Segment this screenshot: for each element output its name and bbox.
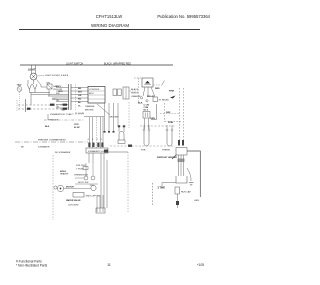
labels under heaters xyxy=(141,150,170,152)
label red xyxy=(155,88,160,90)
compressor bottom lead xyxy=(176,194,179,208)
center drop wires xyxy=(104,103,119,133)
svg-text:CFHT1513LW: CFHT1513LW xyxy=(96,14,122,19)
compressor overload bracket xyxy=(176,176,187,183)
footer doc code xyxy=(197,263,204,267)
dashed bus lower xyxy=(18,108,68,110)
svg-text:FREEZER COMPARTMENT: FREEZER COMPARTMENT xyxy=(38,139,66,142)
label start relay xyxy=(159,99,170,102)
svg-text:HOLD. SW: HOLD. SW xyxy=(78,182,88,184)
icemaker top cluster text xyxy=(76,165,86,171)
evap fan motor component xyxy=(118,125,125,143)
enclosure dash timer left xyxy=(134,78,142,102)
wire color list xyxy=(131,88,141,98)
text under control box xyxy=(61,105,95,115)
svg-text:LIGHT SOCKET & BULB: LIGHT SOCKET & BULB xyxy=(45,75,69,77)
cold control body xyxy=(143,112,150,130)
svg-text:60 HZ: 60 HZ xyxy=(74,127,80,129)
icemaker motor M1 xyxy=(57,185,63,191)
wire tick right of timer xyxy=(154,81,165,86)
start device label xyxy=(158,187,165,190)
icemaker wire row xyxy=(75,183,98,185)
dash line through heaters xyxy=(110,145,175,147)
compartment label xyxy=(49,120,59,122)
icemaker leads below xyxy=(89,153,107,208)
freezer lamp symbol xyxy=(17,87,22,92)
label defrost heater bottom xyxy=(157,156,177,159)
svg-text:ICEMAKER PLUG: ICEMAKER PLUG xyxy=(88,150,105,153)
wire bus lower xyxy=(48,95,69,97)
ground symbol xyxy=(189,183,194,186)
svg-text:ORANGE: ORANGE xyxy=(85,105,95,108)
junction blob on dash line xyxy=(128,145,132,147)
svg-text:WH: WH xyxy=(78,92,82,94)
svg-text:* Non-Illustrated Parts: * Non-Illustrated Parts xyxy=(16,264,48,268)
svg-text:NO ICEMAKER: NO ICEMAKER xyxy=(55,151,71,154)
svg-text:BLK: BLK xyxy=(45,126,50,128)
motor to switch wire xyxy=(64,187,91,189)
enclosure dash at connector xyxy=(75,84,77,110)
icemaker aux circle xyxy=(54,186,57,189)
sensing tube wire xyxy=(150,104,157,120)
harness dash upper xyxy=(72,113,84,115)
control box xyxy=(88,87,105,104)
icemaker harness verticals xyxy=(90,117,104,148)
svg-text:RD: RD xyxy=(78,99,82,101)
fan leader diagonal xyxy=(172,155,177,160)
label green bottom right xyxy=(194,200,199,202)
label pink lower xyxy=(168,122,174,124)
thermostat block xyxy=(123,87,129,99)
svg-text:BOX: BOX xyxy=(89,93,94,95)
wire switches to bus xyxy=(30,90,51,93)
svg-text:HEATER: HEATER xyxy=(60,173,69,176)
icemaker text rows xyxy=(74,174,95,188)
plug connector P1 xyxy=(46,83,52,90)
svg-text:BLACK, WRAPPED RED: BLACK, WRAPPED RED xyxy=(104,62,131,65)
ground wire diagonal xyxy=(187,168,191,181)
harness bracket xyxy=(47,114,49,120)
drop dash center xyxy=(127,152,129,212)
svg-text:3 TMR: 3 TMR xyxy=(158,187,165,190)
svg-text:RELAY: RELAY xyxy=(147,95,155,98)
voltage label block xyxy=(74,124,80,129)
icemaker switch circle xyxy=(91,185,96,190)
icemaker bottom text xyxy=(66,199,81,202)
lamp feed wire xyxy=(37,80,47,88)
publication number xyxy=(157,14,210,19)
condenser fan return wire xyxy=(187,151,200,197)
label pink right xyxy=(169,91,175,93)
svg-text:LIGHT SWITCH: LIGHT SWITCH xyxy=(66,62,83,65)
wiring diagram heading xyxy=(91,23,129,28)
relay contact dots xyxy=(140,97,148,102)
icemaker pin ticks xyxy=(88,143,103,148)
svg-text:HTR: HTR xyxy=(141,150,146,152)
svg-text:ST RELAY: ST RELAY xyxy=(159,99,170,102)
wire lamp drop dotted xyxy=(19,92,21,109)
svg-text:Publication No. 5995573364: Publication No. 5995573364 xyxy=(157,14,210,19)
left bus wire labels xyxy=(56,86,60,109)
icemaker feed verticals xyxy=(86,163,93,176)
no icemaker label xyxy=(55,151,71,154)
cold control pin labels xyxy=(144,105,149,112)
defrost timer box xyxy=(142,78,153,87)
heater bottom wire xyxy=(104,150,128,153)
enclosure dash relay left xyxy=(164,103,166,122)
icemaker connector box xyxy=(86,148,108,153)
svg-text:ORANGE: ORANGE xyxy=(131,95,141,98)
svg-text:BK: BK xyxy=(78,88,82,90)
label light socket leader xyxy=(37,75,69,77)
icemaker pin numbers xyxy=(88,139,104,141)
enclosure dash right outer xyxy=(183,88,185,140)
timer-plug link dash xyxy=(130,90,139,92)
header rule xyxy=(19,29,200,31)
wire lamp terminals to rail xyxy=(32,65,36,74)
ground leader wire xyxy=(97,104,119,119)
label green yellow xyxy=(53,86,63,91)
svg-text:WIRING DIAGRAM: WIRING DIAGRAM xyxy=(91,23,129,28)
svg-text:11: 11 xyxy=(107,263,111,267)
svg-text:SHUT-OFF SW: SHUT-OFF SW xyxy=(86,196,100,198)
svg-text:WATER VALVE: WATER VALVE xyxy=(66,199,81,202)
svg-text:115V: 115V xyxy=(74,124,79,126)
door switch S1 xyxy=(27,80,32,90)
svg-text:+105: +105 xyxy=(197,263,204,267)
wire bus third xyxy=(52,98,69,100)
wire timer drop left xyxy=(143,87,155,97)
icemaker harness top wire xyxy=(84,116,104,118)
start relay box xyxy=(153,97,158,102)
svg-text:THERM: THERM xyxy=(162,150,170,152)
defrost heater component xyxy=(143,125,150,146)
icemaker mold heater label xyxy=(60,171,69,176)
defrost thermostat component xyxy=(166,125,173,146)
freezer lamp label xyxy=(17,84,23,87)
svg-text:OR: OR xyxy=(78,95,82,97)
svg-text:WHITE: WHITE xyxy=(131,93,139,95)
compressor feed wires xyxy=(178,155,185,176)
icemaker bottom text2 xyxy=(68,205,79,207)
run capacitor xyxy=(175,187,180,194)
plug pair xyxy=(113,89,121,96)
label motor xyxy=(66,187,74,189)
svg-text:LIGHT: LIGHT xyxy=(28,69,36,72)
svg-text:RED: RED xyxy=(155,88,160,90)
partition small labels xyxy=(21,146,50,149)
icemaker fuse element xyxy=(83,167,88,170)
icemaker thermostat circles xyxy=(75,176,95,180)
freezer wall vertical xyxy=(25,99,27,112)
enclosure dash right inner xyxy=(179,88,181,140)
wire switch drop xyxy=(30,93,32,106)
label grn on wire xyxy=(58,91,63,93)
enclosure dash center upper xyxy=(128,102,130,128)
svg-text:120V 60HZ: 120V 60HZ xyxy=(68,205,79,207)
svg-text:ICEMAKER: ICEMAKER xyxy=(38,146,50,149)
svg-text:GRN: GRN xyxy=(150,118,155,120)
bottom connector xyxy=(96,208,105,213)
start device wire xyxy=(162,183,176,187)
compressor enclosure dash xyxy=(152,183,154,205)
svg-text:RUN CAP.: RUN CAP. xyxy=(181,191,192,194)
svg-text:CONTROL: CONTROL xyxy=(89,89,100,91)
svg-text:BLACK: BLACK xyxy=(131,88,139,91)
svg-text:BLK: BLK xyxy=(138,103,143,105)
top supply rail wire xyxy=(20,64,173,66)
shutoff arm box xyxy=(73,193,84,198)
bottom harness verticals xyxy=(97,195,103,212)
icemaker enclosure dash xyxy=(52,155,54,220)
light bulb label xyxy=(28,69,36,72)
partition dash-dot line xyxy=(15,141,88,143)
label blk small xyxy=(45,126,50,128)
svg-text:PINK: PINK xyxy=(169,91,175,93)
label blk corner xyxy=(138,103,143,105)
footer page number xyxy=(107,263,111,267)
door switch S2 xyxy=(33,80,38,90)
label light switch on rail xyxy=(66,62,83,65)
partition label xyxy=(38,139,66,142)
label run capacitor xyxy=(181,191,192,194)
dashed bus upper xyxy=(18,104,68,106)
svg-text:BROWN: BROWN xyxy=(85,110,94,112)
harness dash lower xyxy=(44,119,84,121)
label defrost dash line xyxy=(160,112,180,114)
plug drop wire xyxy=(48,89,50,96)
wire code labels column xyxy=(78,88,82,108)
freezer dash top left xyxy=(16,100,18,111)
enclosure dash relay bottom xyxy=(165,121,182,123)
enclosure dash upper xyxy=(140,125,176,127)
label black wrapped wire xyxy=(104,62,131,65)
connector strip J1 xyxy=(69,84,72,110)
svg-text:DEF.: DEF. xyxy=(166,112,171,114)
title model number xyxy=(96,14,122,19)
svg-text:GROUND: GROUND xyxy=(109,117,119,119)
svg-text:PINK: PINK xyxy=(168,122,174,124)
bus junction blobs xyxy=(27,104,67,110)
relay label mid xyxy=(147,95,155,98)
condenser fan component xyxy=(176,140,187,155)
footer functional parts xyxy=(16,260,48,268)
harness label row xyxy=(50,113,72,116)
label shutoff xyxy=(86,196,100,198)
harness wires into connector xyxy=(31,88,69,109)
light bulb lamp symbol xyxy=(30,73,37,80)
svg-text:CN1: CN1 xyxy=(46,83,51,85)
wires from connector to control box xyxy=(71,88,88,102)
svg-text:GRN: GRN xyxy=(194,200,199,202)
relay arrow mark xyxy=(170,96,176,99)
svg-text:ICEMAKER FILL TUBE: ICEMAKER FILL TUBE xyxy=(50,113,72,116)
svg-text:THERMOSTAT: THERMOSTAT xyxy=(74,174,89,177)
